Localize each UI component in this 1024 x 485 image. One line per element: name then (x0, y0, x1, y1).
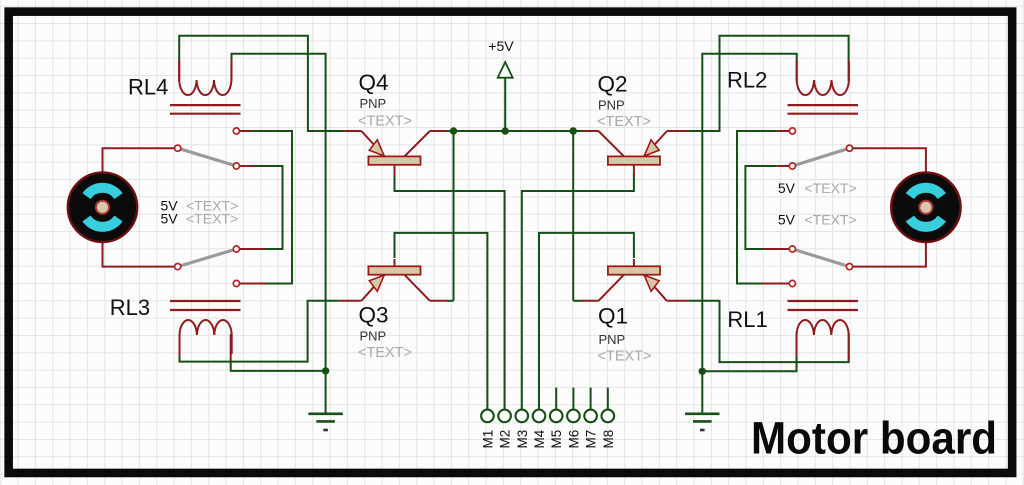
svg-text:Q3: Q3 (359, 303, 389, 328)
svg-text:<TEXT>: <TEXT> (358, 113, 412, 129)
svg-text:5V: 5V (778, 180, 796, 196)
svg-text:<TEXT>: <TEXT> (358, 345, 412, 361)
svg-text:Q2: Q2 (598, 72, 628, 97)
svg-text:+5V: +5V (488, 38, 514, 54)
svg-text:M3: M3 (515, 430, 530, 449)
svg-text:M7: M7 (584, 430, 599, 449)
svg-text:M1: M1 (480, 430, 495, 449)
svg-text:RL3: RL3 (110, 295, 150, 320)
svg-text:M6: M6 (566, 430, 581, 449)
svg-text:RL2: RL2 (727, 68, 767, 93)
svg-text:PNP: PNP (599, 332, 626, 347)
svg-text:Q4: Q4 (359, 70, 389, 95)
svg-text:M5: M5 (549, 430, 564, 449)
svg-text:<TEXT>: <TEXT> (598, 349, 652, 365)
svg-text:PNP: PNP (360, 96, 387, 111)
svg-text:5V: 5V (161, 210, 179, 226)
svg-text:5V: 5V (778, 212, 796, 228)
svg-text:Q1: Q1 (598, 304, 628, 329)
svg-text:M8: M8 (601, 430, 616, 449)
svg-text:M2: M2 (498, 430, 513, 449)
svg-text:<TEXT>: <TEXT> (805, 212, 857, 228)
svg-text:<TEXT>: <TEXT> (805, 180, 857, 196)
svg-text:<TEXT>: <TEXT> (597, 114, 651, 130)
svg-text:Motor board: Motor board (751, 413, 997, 464)
svg-text:PNP: PNP (598, 98, 625, 113)
svg-text:PNP: PNP (360, 329, 387, 344)
svg-text:RL4: RL4 (128, 75, 168, 100)
svg-text:RL1: RL1 (727, 307, 767, 332)
svg-text:M4: M4 (532, 429, 547, 448)
svg-text:<TEXT>: <TEXT> (186, 210, 238, 226)
